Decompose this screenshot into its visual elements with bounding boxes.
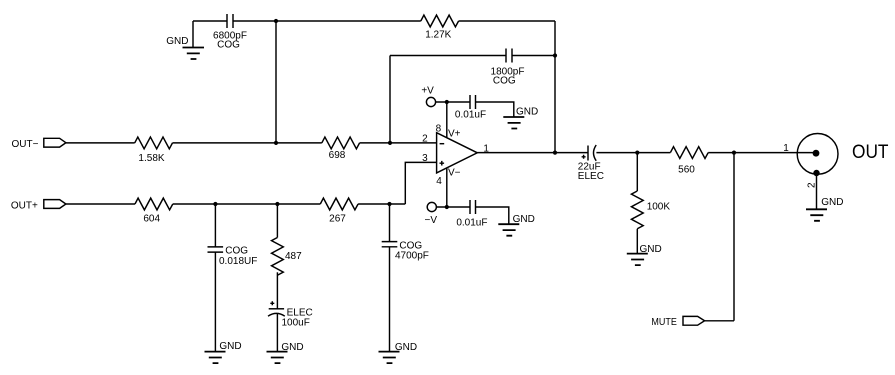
capacitor 4700pF plates <box>382 242 398 247</box>
wire +V to cap <box>436 101 470 103</box>
wire 4700pF branch top <box>389 204 391 242</box>
svg-text:604: 604 <box>143 213 160 224</box>
capacitor 6800pF plates <box>227 14 233 28</box>
svg-text:100K: 100K <box>647 201 671 212</box>
svg-text:GND: GND <box>219 341 241 352</box>
svg-text:GND: GND <box>166 36 188 47</box>
wire pin3 riser <box>405 162 436 204</box>
resistor 1.27K <box>421 15 459 27</box>
svg-text:0.01uF: 0.01uF <box>456 217 487 228</box>
wire MUTE riser <box>733 153 735 321</box>
wire 267 to corner <box>358 203 405 205</box>
ground BNC <box>806 209 827 221</box>
ground V- bypass <box>498 224 519 236</box>
node junction x215 OUT+ rail <box>213 202 217 206</box>
svg-text:487: 487 <box>285 251 302 262</box>
resistor 487 vertical <box>272 238 284 276</box>
svg-text:GND: GND <box>516 106 538 117</box>
svg-text:1.27K: 1.27K <box>425 30 451 41</box>
wire vertical x276 <box>275 21 277 143</box>
wire 698 to op-amp pin 2 <box>360 142 437 144</box>
resistor 100K vertical <box>631 191 643 229</box>
wire OUT+ to R 604 <box>66 203 135 205</box>
node junction mute tap <box>732 151 736 155</box>
svg-text:4700pF: 4700pF <box>395 251 429 262</box>
svg-text:1.58K: 1.58K <box>138 153 164 164</box>
capacitor 1800pF plates <box>506 49 512 63</box>
svg-text:4: 4 <box>436 176 442 187</box>
op-amp minus mark <box>440 143 445 145</box>
svg-text:COG: COG <box>217 39 240 50</box>
wire 22uF to 560 <box>596 152 670 154</box>
op-amp U1 triangle <box>437 133 478 173</box>
wire 560 to BNC <box>708 152 816 154</box>
capacitor 0.01uF bottom plates <box>470 200 476 214</box>
wire GND drop top-left <box>192 21 194 48</box>
svg-text:OUT+: OUT+ <box>11 201 38 212</box>
ground top-left <box>183 48 205 60</box>
terminal OUT+ <box>44 200 66 209</box>
svg-text:1: 1 <box>783 143 789 154</box>
node junction x276 on OUT- rail <box>274 141 278 145</box>
terminal OUT- <box>44 138 66 147</box>
svg-text:100uF: 100uF <box>282 317 310 328</box>
node junction feedback x555 <box>553 53 557 57</box>
svg-text:COG: COG <box>493 76 516 87</box>
svg-text:+V: +V <box>421 85 434 96</box>
wire V- riser <box>446 168 448 207</box>
wire 4700pF branch bottom <box>389 247 391 352</box>
wire 0.018UF branch top <box>214 204 216 247</box>
node BNC shield pin <box>813 170 819 176</box>
svg-text:698: 698 <box>329 150 346 161</box>
svg-text:MUTE: MUTE <box>651 317 677 328</box>
svg-text:0.018UF: 0.018UF <box>219 256 257 267</box>
svg-text:8: 8 <box>436 124 442 135</box>
svg-text:ELEC: ELEC <box>578 171 604 182</box>
svg-text:V+: V+ <box>448 128 461 139</box>
svg-text:−V: −V <box>425 215 438 226</box>
wire 487 to ELEC cap <box>276 272 278 309</box>
svg-text:GND: GND <box>821 197 843 208</box>
node junction pin2 feedback <box>388 141 392 145</box>
terminal MUTE <box>683 316 705 325</box>
ground below 4700pF <box>379 352 400 364</box>
capacitor 0.01uF top plates <box>470 95 476 109</box>
svg-text:COG: COG <box>225 245 248 256</box>
wire top rail left segment <box>193 20 227 22</box>
wire output rail to 22uF <box>477 152 588 154</box>
svg-text:560: 560 <box>678 164 695 175</box>
ground below 0.018UF <box>205 352 226 364</box>
wire V+ riser <box>446 102 448 138</box>
capacitor 22uF polarized <box>582 145 597 161</box>
capacitor 0.018UF plates <box>208 247 224 252</box>
ground V+ bypass <box>503 117 524 129</box>
wire 1.58K to 698 <box>173 142 322 144</box>
svg-text:OUT−: OUT− <box>12 139 39 150</box>
svg-text:267: 267 <box>329 213 346 224</box>
resistor 1.58K <box>135 137 173 149</box>
wire vertical x555 <box>554 21 556 153</box>
node junction top rail x276 <box>274 19 278 23</box>
svg-text:GND: GND <box>281 342 303 353</box>
svg-text:2: 2 <box>422 134 428 145</box>
wire 604 to 267 <box>173 203 320 205</box>
ground below ELEC <box>267 352 288 364</box>
terminal +V circle <box>426 97 435 106</box>
node junction x389 OUT+ rail <box>387 202 391 206</box>
svg-text:0.01uF: 0.01uF <box>455 109 486 120</box>
wire 100K top lead <box>636 153 638 191</box>
wire feedback rail left <box>390 55 506 57</box>
wire 100K bottom lead <box>636 229 638 254</box>
svg-text:GND: GND <box>513 214 535 225</box>
wire 487 branch top lead <box>276 204 278 238</box>
wire vertical x390 feedback <box>389 56 391 143</box>
resistor 698 <box>322 137 360 149</box>
svg-text:3: 3 <box>422 153 428 164</box>
node junction x277 OUT+ rail <box>275 202 279 206</box>
wire cap to GND drop <box>476 102 514 117</box>
resistor 604 <box>135 198 173 210</box>
wire feedback rail right <box>512 55 555 57</box>
node junction 100K tap <box>635 151 639 155</box>
node BNC center pin <box>813 150 820 157</box>
wire top rail right segment <box>459 20 555 22</box>
wire MUTE horizontal <box>705 320 734 322</box>
wire BNC shield to ground <box>816 174 818 209</box>
node junction V+ <box>445 100 449 104</box>
connector BNC circle <box>797 134 838 175</box>
resistor 267 <box>320 198 358 210</box>
ground below 100K <box>627 254 648 266</box>
resistor 560 <box>670 147 708 159</box>
wire OUT- to R 1.58K <box>66 142 135 144</box>
svg-text:GND: GND <box>640 244 662 255</box>
svg-text:GND: GND <box>395 342 417 353</box>
wire top rail mid segment <box>233 20 421 22</box>
terminal -V circle <box>427 202 436 211</box>
node junction V- <box>445 205 449 209</box>
capacitor ELEC 100uF polarized <box>268 301 285 316</box>
wire 0.018UF branch bottom <box>214 252 216 352</box>
op-amp plus mark <box>440 161 445 166</box>
svg-text:V−: V− <box>448 168 461 179</box>
wire ELEC to ground <box>276 314 278 352</box>
wire -V to cap <box>436 206 470 208</box>
node junction output feedback x555 <box>553 151 557 155</box>
wire cap to GND drop <box>476 207 509 224</box>
svg-text:OUT: OUT <box>852 141 889 163</box>
